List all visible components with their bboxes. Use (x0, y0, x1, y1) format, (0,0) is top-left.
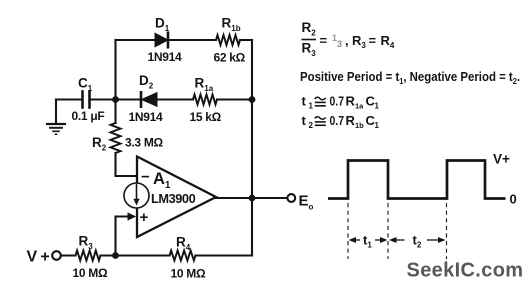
resistor R3 (76, 251, 101, 261)
resistor R1a (193, 95, 217, 105)
diode D2 (141, 92, 157, 106)
wire D2 to R1a (157, 98, 193, 100)
ground (47, 100, 65, 135)
svg-text:=: = (320, 33, 328, 48)
svg-text:10 MΩ: 10 MΩ (171, 267, 206, 281)
output terminal circle (287, 194, 295, 202)
formula t2 = 0.7 R1b C1 (302, 113, 380, 130)
waveform output square wave (328, 161, 506, 199)
dashed marker t1 end (387, 203, 389, 259)
node junction dot output (249, 195, 256, 202)
wire op-amp output to terminal (216, 197, 287, 199)
svg-text:LM3900: LM3900 (151, 191, 196, 206)
svg-text:0: 0 (510, 192, 517, 207)
capacitor C1 (83, 92, 90, 108)
svg-text:=: = (369, 33, 377, 48)
wire node A to D2 (116, 98, 142, 100)
wire right rail vertical (251, 40, 253, 256)
wire R4 to right rail (196, 254, 253, 256)
wire R1b to right rail corner (240, 39, 252, 41)
dimension arrow t2 (389, 237, 446, 243)
wire C1 to node A (90, 98, 116, 100)
formula fraction R2/R3 (302, 20, 317, 58)
resistor R4 (170, 251, 196, 261)
resistor R1b (216, 35, 240, 45)
svg-text:3.3 MΩ: 3.3 MΩ (125, 136, 164, 150)
node junction dot right rail / R1a (249, 96, 256, 103)
node B junction dot (112, 252, 119, 259)
current source circle of LM3900 (124, 183, 149, 208)
wire node A down to R2 (114, 100, 116, 124)
wire top branch to D1 (116, 39, 156, 41)
dimension arrow t1 (349, 237, 388, 243)
input terminal V+ circle (52, 251, 61, 260)
svg-text:0.1 μF: 0.1 μF (72, 109, 105, 123)
svg-text:15 kΩ: 15 kΩ (190, 110, 222, 124)
svg-text:V+: V+ (493, 152, 510, 167)
wire node B to R4 (116, 254, 170, 256)
formula = 1/3 , R3 = R4 (320, 33, 395, 50)
formula t1 = 0.7 R1a C1 (302, 94, 380, 111)
wire R3 to node B (101, 254, 116, 256)
svg-text:SeekIC.com: SeekIC.com (407, 260, 524, 282)
svg-text:−: − (141, 169, 150, 186)
wire R2 to inverting input (116, 153, 138, 176)
dashed marker t2 end (446, 203, 448, 259)
svg-text:62 kΩ: 62 kΩ (214, 51, 246, 65)
wire ground to C1 (56, 98, 82, 100)
op-amp U1 triangle (137, 157, 216, 238)
svg-text:10 MΩ: 10 MΩ (73, 266, 108, 280)
wire D1 to R1b (168, 39, 216, 41)
svg-text:Positive Period = t1, Negative: Positive Period = t1, Negative Period = … (300, 69, 520, 86)
svg-text:+: + (140, 209, 149, 226)
resistor R2 (111, 123, 121, 153)
wire non-inverting input with arrow (116, 213, 136, 255)
wire node A up to top branch (114, 40, 116, 100)
node A junction dot (112, 96, 119, 103)
svg-text:,: , (345, 33, 349, 48)
wire R1a to right rail (217, 98, 252, 100)
wire terminal to R3 (61, 254, 76, 256)
diode D1 (155, 33, 168, 47)
svg-text:3: 3 (337, 39, 342, 49)
svg-text:1N914: 1N914 (148, 50, 182, 64)
svg-text:V +: V + (27, 249, 50, 266)
dashed marker t1 start (347, 203, 349, 259)
svg-text:1N914: 1N914 (129, 110, 163, 124)
